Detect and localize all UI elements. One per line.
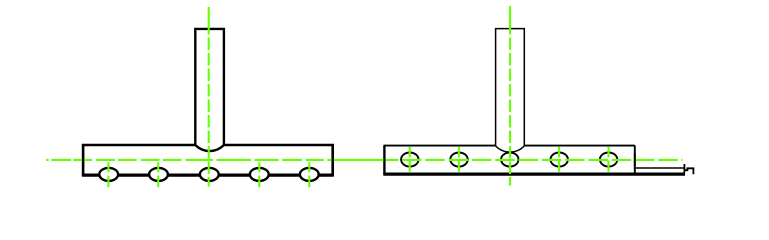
- left part: flange bar outline: [82, 145, 334, 176]
- left hole 5 centerline: [308, 162, 310, 187]
- left hole 1 centerline: [107, 162, 109, 187]
- left part: stem (vertical neck): [195, 29, 224, 145]
- right part: break hook at tab end: [684, 164, 693, 174]
- left hole 1: [99, 168, 118, 181]
- right part: flange bar outline: [384, 146, 635, 176]
- right hole 5: [600, 153, 617, 167]
- left part: fillet arc at stem base: [195, 145, 224, 151]
- left hole 4: [250, 168, 269, 181]
- right hole 1 centerline: [409, 146, 411, 171]
- right part: thin tab top line: [635, 167, 685, 169]
- horizontal centerline (green, dashed, spans both parts): [46, 159, 682, 161]
- right hole 3: [501, 153, 518, 167]
- right hole 4 centerline: [558, 146, 560, 171]
- right hole 4: [551, 153, 568, 167]
- right part: fillet arc at stem base: [496, 146, 525, 152]
- bar edge overdraw at centerline crossings: [83, 153, 635, 166]
- right hole 5 centerline: [607, 146, 609, 171]
- right part: stem (vertical neck): [496, 29, 525, 146]
- right hole 2: [450, 153, 467, 167]
- right hole 2 centerline: [458, 146, 460, 171]
- left hole 5: [300, 168, 319, 181]
- left hole 2 centerline: [157, 162, 159, 187]
- right part: thick bottom edge line extended: [383, 173, 685, 176]
- right hole 1: [401, 153, 418, 167]
- left hole 3: [200, 168, 219, 181]
- left hole 2: [149, 168, 168, 181]
- left stem vertical centerline (green): [208, 7, 210, 35]
- right stem vertical centerline (green): [509, 6, 511, 35]
- left hole 4 centerline: [258, 162, 260, 187]
